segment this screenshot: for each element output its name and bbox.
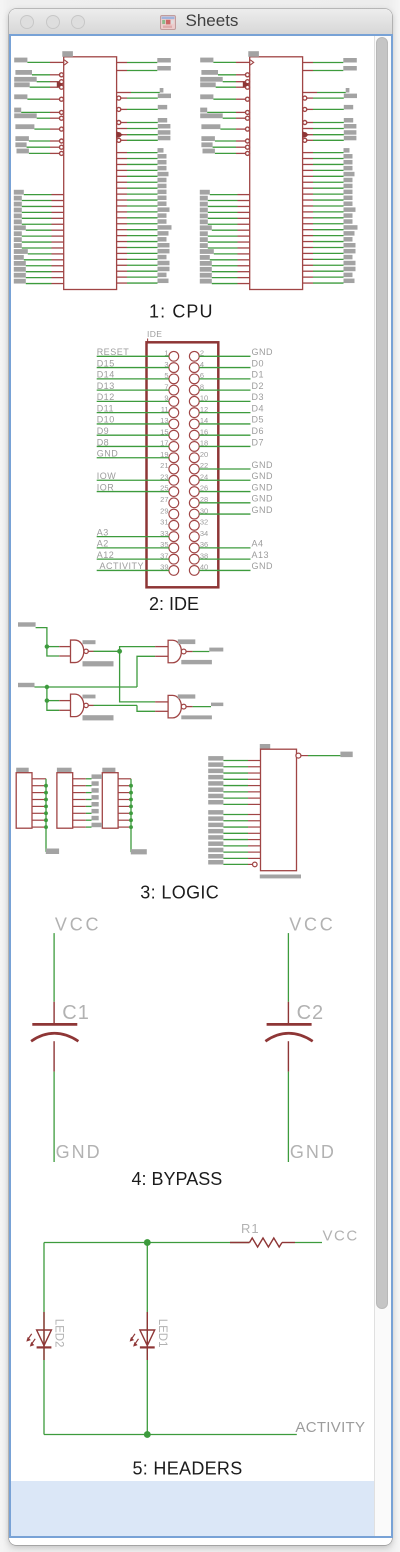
net D3 wire from J1 pin 10 bbox=[199, 392, 264, 402]
svg-text:IOR: IOR bbox=[97, 482, 115, 492]
svg-text:D10: D10 bbox=[97, 415, 115, 425]
net D11 wire to J1 pin 11 bbox=[97, 403, 169, 413]
net D14 wire to J1 pin 5 bbox=[97, 370, 169, 380]
svg-text:ACTIVITY: ACTIVITY bbox=[100, 561, 145, 571]
svg-text:D8: D8 bbox=[97, 437, 110, 447]
net GND wire from J1 pin 30 bbox=[199, 505, 273, 515]
connector J1 body bbox=[147, 342, 219, 587]
net OUT2 label box bbox=[211, 703, 223, 707]
svg-text:IOW: IOW bbox=[97, 471, 117, 481]
wire gate G1 output to gate G3 and G4 inputs bbox=[88, 647, 168, 702]
wire capacitor C2 to GND bbox=[287, 1041, 289, 1162]
capacitor C2 bottom plate bbox=[265, 1033, 312, 1041]
IC U1 right inverted pins with net labels bbox=[117, 94, 171, 143]
svg-text:GND: GND bbox=[252, 460, 274, 470]
svg-text:A4: A4 bbox=[252, 539, 264, 549]
gate G4 value label bbox=[181, 715, 212, 719]
svg-text:D11: D11 bbox=[97, 403, 114, 413]
junction G1 output bbox=[117, 649, 122, 654]
wire VCC to capacitor C1 bbox=[53, 933, 55, 1024]
net A13 wire from J1 pin 38 bbox=[199, 550, 269, 560]
IC U1 left control pins with net labels bbox=[14, 58, 67, 156]
diode LED2 lead bbox=[43, 1312, 45, 1360]
minimize button bbox=[46, 15, 60, 29]
svg-text:4: BYPASS: 4: BYPASS bbox=[132, 1169, 223, 1189]
IC U2 body bbox=[261, 749, 297, 871]
net GND wire to J1 pin 19 bbox=[97, 449, 169, 459]
svg-text:A13: A13 bbox=[252, 550, 270, 560]
net GND wire from J1 pin 22 bbox=[199, 460, 273, 470]
diode LED2 triangle bbox=[37, 1330, 52, 1346]
svg-text:D3: D3 bbox=[252, 392, 265, 402]
svg-text:A2: A2 bbox=[97, 539, 109, 549]
header SV2 pins and net labels bbox=[73, 774, 102, 827]
wire VCC rail bbox=[44, 1242, 322, 1244]
wire IN1 to gate G1 inputs bbox=[36, 628, 71, 656]
net GND wire from J1 pin 24 bbox=[199, 471, 273, 481]
header SV3 bus wire bbox=[130, 779, 133, 852]
svg-text:D15: D15 bbox=[97, 358, 115, 368]
junction IN2 a bbox=[45, 685, 49, 689]
gate G4 output bubble bbox=[181, 704, 186, 709]
header SV1 body bbox=[16, 773, 32, 829]
diode LED2 emission arrows bbox=[26, 1334, 35, 1347]
IC U2 enable pin with net label bbox=[208, 860, 257, 867]
svg-text:D7: D7 bbox=[252, 437, 265, 447]
wire ACTIVITY rail bbox=[44, 1434, 297, 1436]
gate G3 type label bbox=[178, 639, 196, 644]
net D0 wire from J1 pin 4 bbox=[199, 358, 264, 368]
svg-text:GND: GND bbox=[252, 505, 274, 515]
svg-text:GND: GND bbox=[97, 449, 119, 459]
scrollbar thumb bbox=[376, 37, 388, 1309]
net D13 wire to J1 pin 7 bbox=[97, 381, 169, 391]
IC U1 body bbox=[64, 57, 117, 290]
junction IN2 b bbox=[45, 698, 49, 702]
svg-text:A12: A12 bbox=[97, 550, 115, 560]
header SV2 body bbox=[57, 773, 73, 829]
wire VCC to capacitor C2 bbox=[287, 933, 289, 1024]
junction VCC rail bbox=[144, 1239, 151, 1246]
IC U2 input pins group 1 with net labels bbox=[208, 756, 260, 804]
svg-text:R1: R1 bbox=[241, 1221, 260, 1236]
header SV3 name label bbox=[102, 768, 115, 773]
svg-text:D5: D5 bbox=[252, 415, 265, 425]
wire gate G3 output to net OUT1 bbox=[186, 651, 209, 653]
diode LED1 cathode bar bbox=[140, 1346, 155, 1348]
header SV1 name label bbox=[16, 768, 29, 773]
diode LED1 emission arrows bbox=[130, 1334, 139, 1347]
IC U1B left bidirectional marker bbox=[243, 81, 250, 88]
wire gate G4 output to net OUT2 bbox=[186, 706, 211, 708]
IC U1B right address/data pins with net labels bbox=[303, 148, 358, 283]
IC U1B left control pins with net labels bbox=[200, 58, 254, 156]
net IN1 label box bbox=[18, 622, 36, 626]
svg-text:GND: GND bbox=[252, 561, 274, 571]
selected row (sheet 6) bbox=[11, 1481, 374, 1536]
wire left branch bbox=[43, 1243, 45, 1435]
header SV3 net label box bbox=[131, 849, 147, 854]
svg-text:VCC: VCC bbox=[55, 915, 101, 935]
junction IN1 bbox=[45, 644, 49, 648]
capacitor C2 top plate bbox=[267, 1023, 312, 1026]
net GND wire from J1 pin 28 bbox=[199, 494, 273, 504]
IC U2 output pin with net label bbox=[296, 752, 353, 759]
gate G3 value label bbox=[181, 660, 212, 664]
svg-text:GND: GND bbox=[290, 1142, 336, 1162]
net D5 wire from J1 pin 14 bbox=[199, 415, 264, 425]
svg-text:GND: GND bbox=[56, 1142, 102, 1162]
net D2 wire from J1 pin 8 bbox=[199, 381, 264, 391]
net RESET wire to J1 pin 1 bbox=[97, 347, 169, 357]
IC U1B left data bus pins with net labels bbox=[200, 190, 250, 284]
svg-text:D13: D13 bbox=[97, 381, 115, 391]
gate G1 value label bbox=[83, 661, 114, 666]
svg-text:GND: GND bbox=[252, 482, 274, 492]
header SV2 name label bbox=[57, 768, 72, 773]
IC U1 top pin stub bbox=[62, 51, 73, 57]
svg-text:D14: D14 bbox=[97, 370, 115, 380]
IC U1 right status pins with net labels bbox=[117, 58, 171, 93]
header SV1 bus wire bbox=[45, 779, 48, 851]
title bar bbox=[9, 9, 392, 34]
svg-text:1: CPU: 1: CPU bbox=[149, 301, 214, 321]
svg-text:D9: D9 bbox=[97, 426, 110, 436]
zoom button bbox=[71, 15, 85, 29]
gate G2 output bubble bbox=[84, 703, 88, 707]
svg-text:D6: D6 bbox=[252, 426, 265, 436]
svg-text:A3: A3 bbox=[97, 527, 109, 537]
IC U1 left bidirectional marker bbox=[57, 81, 64, 88]
gate G1 body bbox=[71, 640, 84, 663]
IC U1B right status pins with net labels bbox=[303, 58, 357, 93]
gate G3 body bbox=[168, 640, 181, 663]
header SV1 net label box bbox=[46, 849, 59, 855]
net ACTIVITY wire to J1 pin 39 bbox=[97, 561, 169, 571]
svg-text:LED1: LED1 bbox=[156, 1319, 168, 1348]
svg-text:VCC: VCC bbox=[323, 1228, 359, 1245]
diode LED2 cathode bar bbox=[37, 1346, 52, 1348]
svg-text:D2: D2 bbox=[252, 381, 265, 391]
net A2 wire to J1 pin 35 bbox=[97, 539, 169, 549]
svg-text:2: IDE: 2: IDE bbox=[149, 594, 199, 614]
net D15 wire to J1 pin 3 bbox=[97, 358, 169, 368]
header SV3 body bbox=[102, 773, 118, 829]
svg-text:GND: GND bbox=[252, 471, 274, 481]
net A4 wire from J1 pin 36 bbox=[199, 539, 263, 549]
net IOR wire to J1 pin 25 bbox=[97, 482, 169, 492]
net D6 wire from J1 pin 16 bbox=[199, 426, 264, 436]
IC U1B body bbox=[250, 57, 303, 290]
svg-text:VCC: VCC bbox=[289, 915, 335, 935]
svg-text:GND: GND bbox=[252, 494, 274, 504]
net IN2 label box bbox=[18, 683, 35, 687]
svg-text:3: LOGIC: 3: LOGIC bbox=[140, 883, 219, 903]
junction ACTIVITY rail bbox=[144, 1431, 151, 1438]
svg-text:21: 21 bbox=[160, 461, 168, 470]
net D4 wire from J1 pin 12 bbox=[199, 403, 264, 413]
svg-text:29: 29 bbox=[160, 506, 168, 515]
svg-text:20: 20 bbox=[200, 450, 208, 459]
net A12 wire to J1 pin 37 bbox=[97, 550, 169, 560]
header SV1 pins bbox=[32, 779, 46, 827]
net OUT1 label box bbox=[209, 648, 223, 652]
svg-text:C2: C2 bbox=[297, 1002, 325, 1024]
svg-text:32: 32 bbox=[200, 518, 208, 527]
wire IN2 to gate G2 inputs and gate G3 input bbox=[35, 656, 169, 710]
IC U1 left data bus pins with net labels bbox=[14, 190, 64, 284]
IC U1B top pin stub bbox=[248, 51, 259, 57]
wire middle branch bbox=[146, 1243, 148, 1435]
gate G2 type label bbox=[83, 695, 96, 699]
svg-text:34: 34 bbox=[200, 529, 208, 538]
svg-text:D4: D4 bbox=[252, 403, 265, 413]
IC U1B right bidirectional marker bbox=[303, 131, 310, 138]
net D8 wire to J1 pin 17 bbox=[97, 437, 169, 447]
svg-text:GND: GND bbox=[252, 347, 274, 357]
header SV3 pins bbox=[118, 779, 131, 827]
gate G1 output bubble bbox=[84, 649, 88, 653]
svg-text:D12: D12 bbox=[97, 392, 115, 402]
connector J1 pin numbers bbox=[160, 349, 208, 572]
resistor R1 bbox=[230, 1238, 295, 1247]
IC U2 top stub bbox=[260, 744, 270, 749]
connector J1 pin pads bbox=[169, 351, 199, 575]
svg-text:31: 31 bbox=[160, 518, 168, 527]
svg-text:5: HEADERS: 5: HEADERS bbox=[133, 1459, 243, 1479]
diode LED1 triangle bbox=[140, 1330, 155, 1346]
header SV3 junctions bbox=[129, 784, 133, 829]
net IOW wire to J1 pin 23 bbox=[97, 471, 169, 481]
gate G2 body bbox=[71, 694, 84, 717]
svg-text:27: 27 bbox=[160, 495, 168, 504]
title bbox=[186, 11, 239, 31]
window icon bbox=[160, 15, 176, 30]
svg-text:RESET: RESET bbox=[97, 347, 130, 357]
svg-text:C1: C1 bbox=[62, 1002, 90, 1024]
IC U1 right address/data pins with net labels bbox=[117, 148, 172, 283]
connector J1 name tick bbox=[147, 339, 149, 343]
net D10 wire to J1 pin 13 bbox=[97, 415, 169, 425]
svg-text:IDE: IDE bbox=[147, 329, 162, 339]
capacitor C1 bottom plate bbox=[31, 1033, 78, 1041]
gate G4 body bbox=[168, 695, 181, 718]
svg-text:ACTIVITY: ACTIVITY bbox=[295, 1419, 365, 1436]
gate G1 type label bbox=[83, 640, 96, 644]
net A3 wire to J1 pin 33 bbox=[97, 527, 169, 537]
svg-text:D0: D0 bbox=[252, 358, 265, 368]
IC U1B right inverted pins with net labels bbox=[303, 94, 357, 143]
svg-text:LED2: LED2 bbox=[53, 1319, 65, 1348]
IC U2 bottom label bar bbox=[260, 875, 301, 879]
net GND wire from J1 pin 2 bbox=[199, 347, 273, 357]
net GND wire from J1 pin 26 bbox=[199, 482, 273, 492]
wire gate G2 output to gate G4 input bbox=[88, 705, 168, 711]
wire capacitor C1 to GND bbox=[53, 1041, 55, 1162]
gate G3 output bubble bbox=[181, 649, 186, 654]
scrollbar track bbox=[374, 36, 391, 1536]
IC U1 right bidirectional marker bbox=[117, 131, 124, 138]
close button bbox=[20, 15, 34, 29]
gate G2 value label bbox=[83, 715, 114, 720]
net D1 wire from J1 pin 6 bbox=[199, 370, 264, 380]
capacitor C1 top plate bbox=[32, 1023, 77, 1026]
net D9 wire to J1 pin 15 bbox=[97, 426, 169, 436]
gate G4 type label bbox=[178, 694, 196, 698]
header SV1 junctions bbox=[44, 784, 48, 829]
net D12 wire to J1 pin 9 bbox=[97, 392, 169, 402]
net GND wire from J1 pin 40 bbox=[199, 561, 273, 571]
IC U2 input pins group 2 with net labels bbox=[208, 810, 260, 858]
svg-text:D1: D1 bbox=[252, 370, 265, 380]
diode LED1 lead bbox=[146, 1312, 148, 1360]
net D7 wire from J1 pin 18 bbox=[199, 437, 264, 447]
